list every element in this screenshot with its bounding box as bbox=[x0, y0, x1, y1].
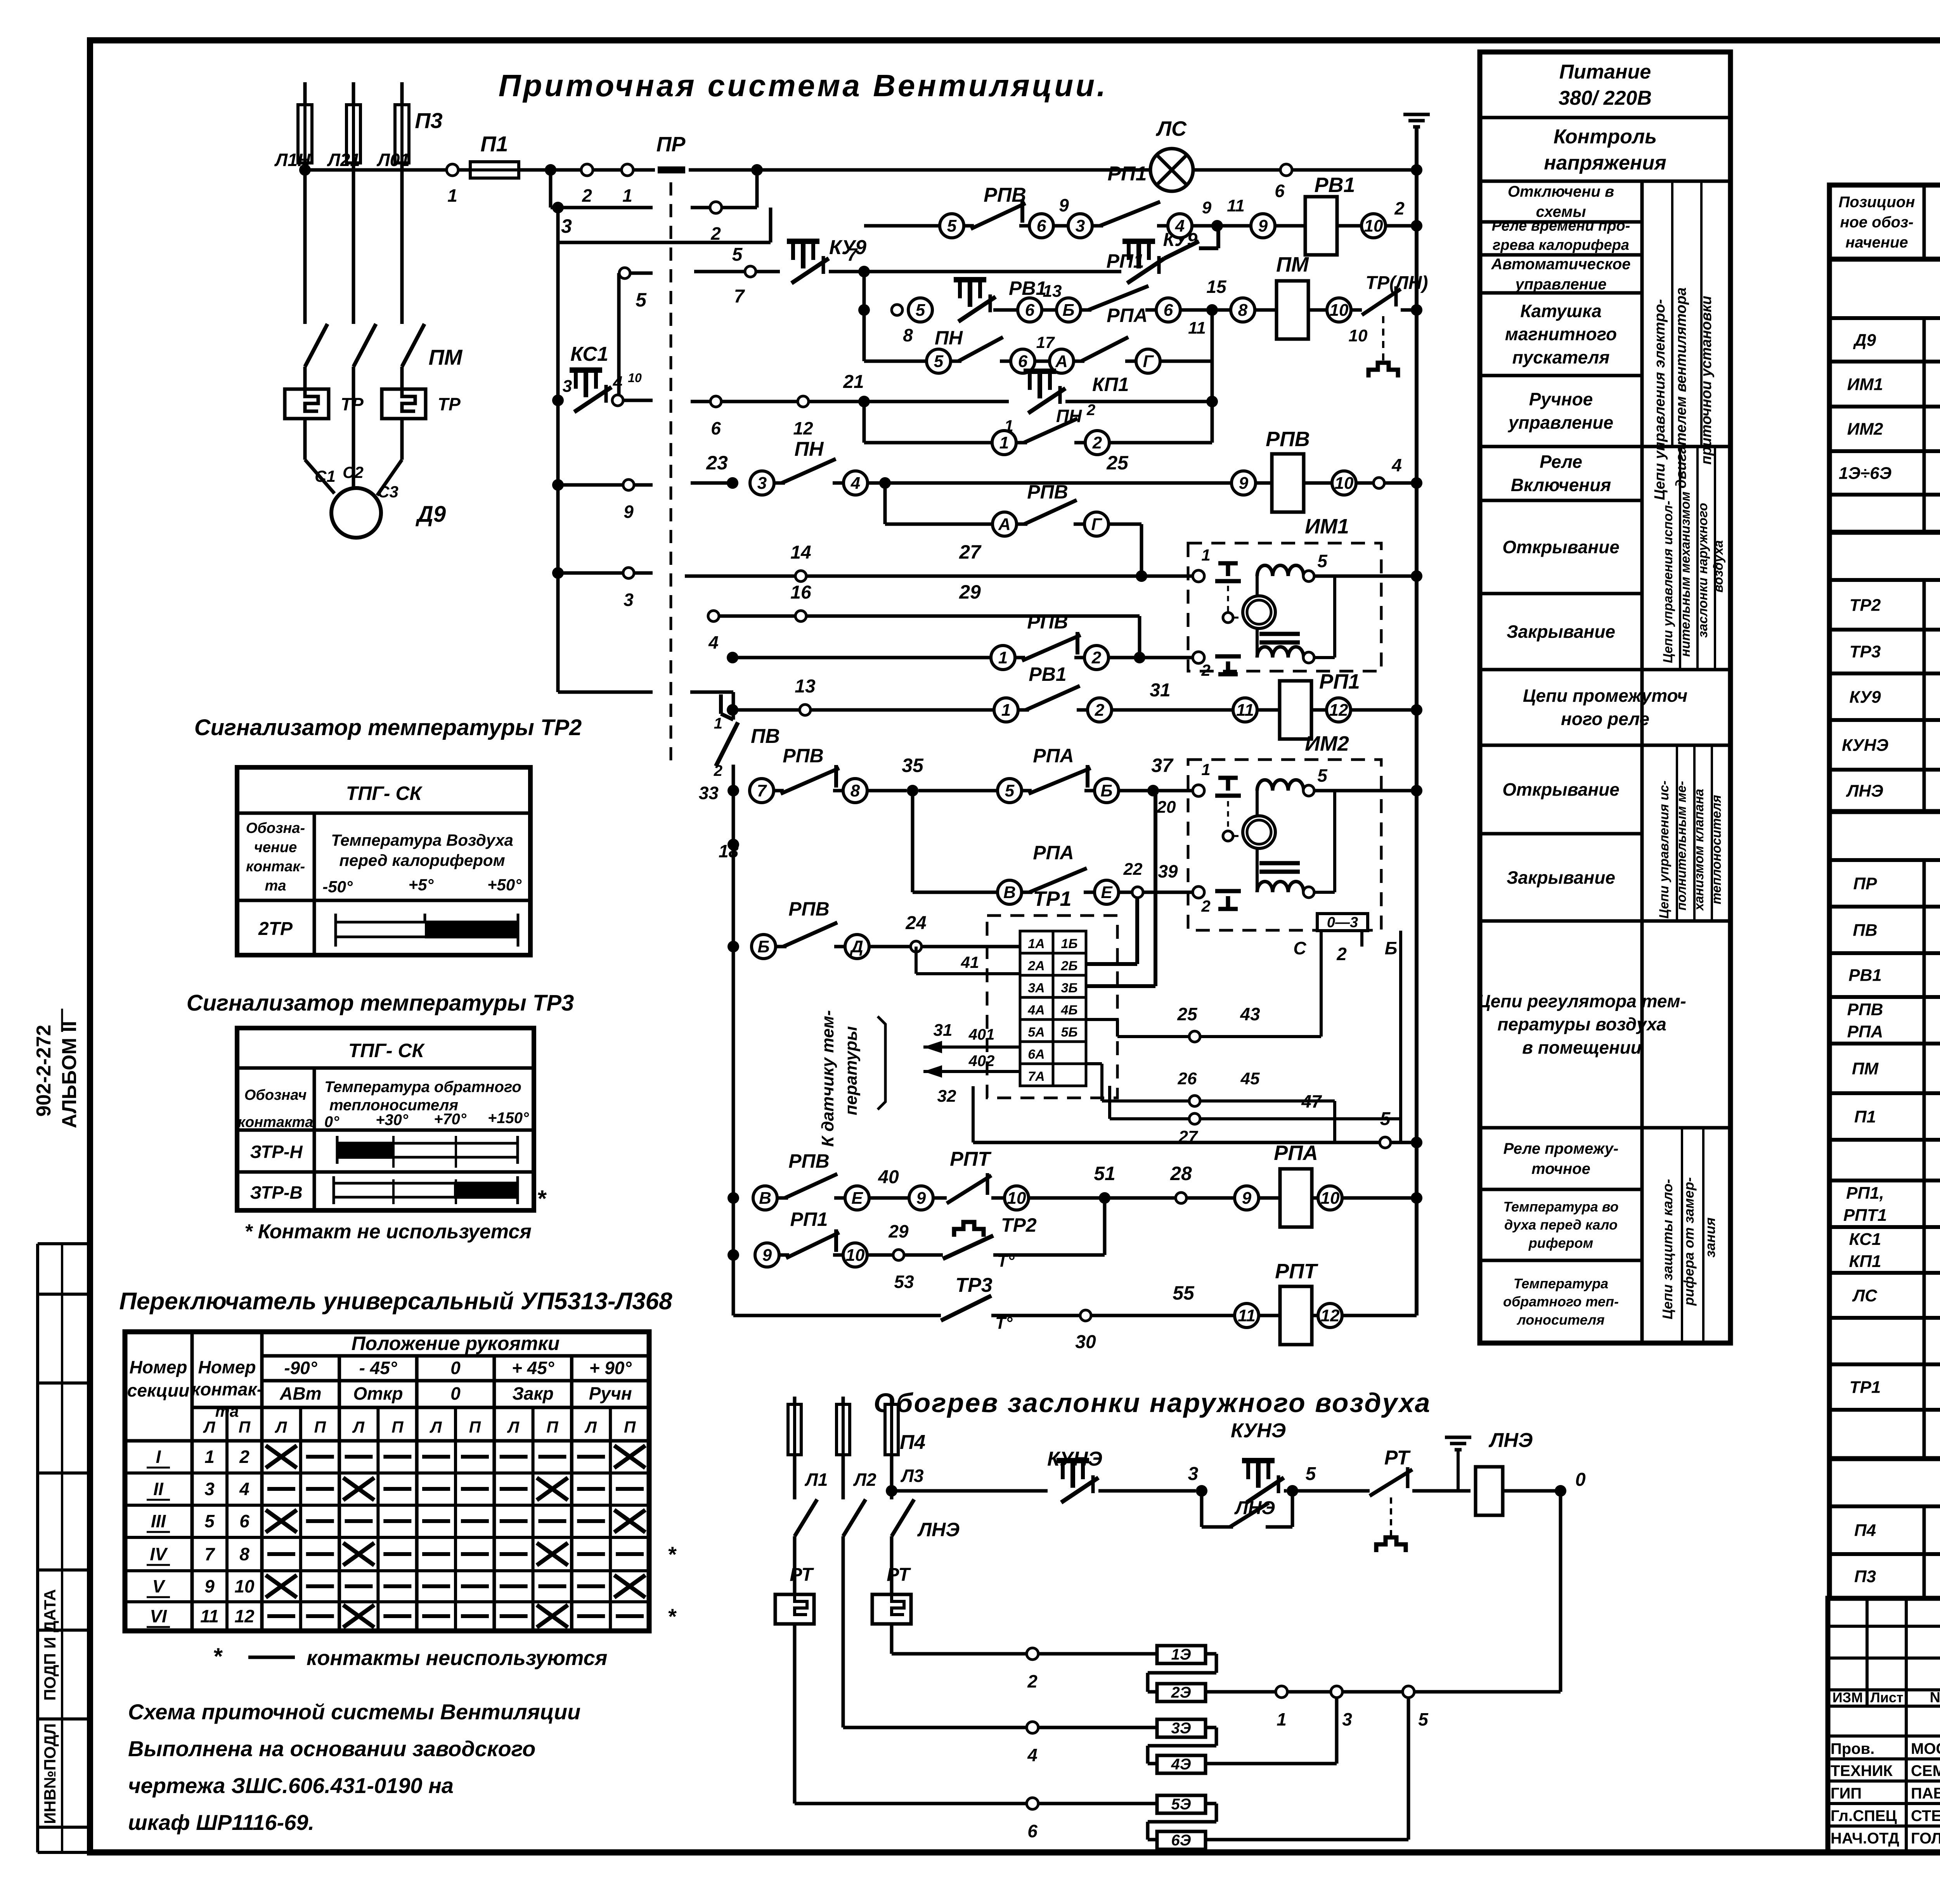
svg-text:Катушка: Катушка bbox=[1520, 301, 1602, 321]
svg-text:3Э: 3Э bbox=[1171, 1720, 1191, 1737]
svg-text:Гл.СПЕЦ: Гл.СПЕЦ bbox=[1831, 1807, 1897, 1824]
svg-text:Закр: Закр bbox=[512, 1383, 554, 1404]
svg-text:напряжения: напряжения bbox=[1544, 152, 1666, 174]
wire row 26/45 bbox=[1086, 1064, 1335, 1142]
part row КУ9 bbox=[1849, 679, 1940, 716]
svg-text:Отключени в: Отключени в bbox=[1508, 183, 1614, 200]
svg-text:Автоматическое: Автоматическое bbox=[1491, 256, 1630, 273]
table: Сигнализатор ТР2 bbox=[194, 715, 582, 955]
svg-text:7А: 7А bbox=[1028, 1069, 1044, 1084]
svg-text:ПВ: ПВ bbox=[1853, 921, 1877, 940]
svg-text:РТ: РТ bbox=[790, 1565, 814, 1585]
svg-text:+150°: +150° bbox=[488, 1110, 529, 1127]
svg-text:4: 4 bbox=[239, 1479, 249, 1499]
contact ПН make (row E) bbox=[864, 327, 1074, 373]
wire row D bbox=[892, 298, 932, 345]
svg-text:6Э: 6Э bbox=[1171, 1832, 1191, 1849]
svg-text:4: 4 bbox=[708, 632, 719, 653]
svg-text:РВ1: РВ1 bbox=[1009, 277, 1046, 299]
wire КС1 rail bbox=[556, 242, 560, 692]
svg-text:2: 2 bbox=[710, 223, 721, 244]
svg-text:1Э÷6Э: 1Э÷6Э bbox=[1839, 464, 1891, 483]
svg-text:двигателем вентилятора: двигателем вентилятора bbox=[1673, 287, 1689, 488]
svg-text:Закрывание: Закрывание bbox=[1507, 867, 1615, 888]
svg-text:6: 6 bbox=[1025, 301, 1035, 320]
heater row 4 (3Э 4Э) bbox=[843, 1698, 1337, 1773]
svg-text:*: * bbox=[667, 1604, 677, 1629]
svg-text:РВ1: РВ1 bbox=[1314, 173, 1355, 197]
svg-text:12: 12 bbox=[234, 1606, 255, 1626]
contact ТР(ЛН) thermal break bbox=[1349, 273, 1428, 377]
svg-text:1: 1 bbox=[714, 715, 722, 732]
svg-text:РПВ: РПВ bbox=[788, 1150, 829, 1172]
svg-text:контак-: контак- bbox=[191, 1379, 263, 1399]
svg-text:контакты неиспользуются: контакты неиспользуются bbox=[307, 1646, 607, 1670]
svg-text:КУ9: КУ9 bbox=[1849, 687, 1881, 706]
node 3 and button КУНЭ start bbox=[1188, 1419, 1370, 1502]
wire row 27 (to ИМ1) bbox=[685, 541, 1193, 582]
svg-text:8: 8 bbox=[850, 781, 860, 800]
svg-text:РПВ: РПВ bbox=[1847, 1000, 1883, 1019]
part row П1 bbox=[1854, 1106, 1940, 1127]
svg-text:13: 13 bbox=[1043, 282, 1062, 301]
heater row (2Э) + nodes 1 3 5 bbox=[1148, 1673, 1561, 1729]
svg-text:6А: 6А bbox=[1028, 1047, 1044, 1062]
svg-text:рифера от замер-: рифера от замер- bbox=[1681, 1177, 1697, 1306]
svg-text:20: 20 bbox=[1157, 798, 1176, 817]
svg-text:8: 8 bbox=[1238, 301, 1248, 320]
svg-text:5Э: 5Э bbox=[1171, 1796, 1191, 1813]
bottom note text block bbox=[128, 1700, 580, 1835]
svg-text:9: 9 bbox=[916, 1189, 926, 1208]
svg-text:1: 1 bbox=[447, 185, 457, 206]
svg-text:-50°: -50° bbox=[322, 878, 353, 896]
svg-text:Л1: Л1 bbox=[804, 1470, 828, 1490]
wire row G (ПН bypass) bbox=[864, 402, 1212, 455]
svg-text:Г: Г bbox=[1091, 515, 1102, 534]
selector table data rows bbox=[147, 1445, 677, 1629]
svg-text:Включения: Включения bbox=[1511, 475, 1611, 495]
svg-text:Ручное: Ручное bbox=[1529, 389, 1593, 409]
svg-text:КС1: КС1 bbox=[570, 343, 608, 365]
svg-text:КП1: КП1 bbox=[1092, 374, 1129, 395]
svg-text:11: 11 bbox=[1227, 196, 1245, 215]
svg-text:3: 3 bbox=[561, 215, 572, 237]
note контакты не используются bbox=[213, 1643, 607, 1670]
motor Д9 bbox=[315, 463, 446, 538]
svg-text:5: 5 bbox=[916, 301, 925, 320]
svg-text:Л2: Л2 bbox=[853, 1470, 876, 1490]
svg-text:6: 6 bbox=[711, 418, 721, 438]
svg-text:10: 10 bbox=[1349, 326, 1368, 345]
svg-text:Контроль: Контроль bbox=[1554, 125, 1657, 148]
part row ТР1 bbox=[1850, 1369, 1940, 1406]
svg-text:Закрывание: Закрывание bbox=[1507, 621, 1615, 642]
bypass row 2-1 and row 3 bbox=[551, 170, 771, 244]
svg-text:10: 10 bbox=[846, 1246, 865, 1265]
svg-text:1: 1 bbox=[998, 648, 1008, 667]
svg-text:17: 17 bbox=[1036, 333, 1055, 351]
contactor ПМ main contacts bbox=[305, 170, 463, 389]
svg-text:СЕМКОВА: СЕМКОВА bbox=[1911, 1762, 1940, 1779]
terminal 1 bbox=[447, 164, 471, 206]
svg-text:7: 7 bbox=[204, 1544, 215, 1564]
svg-text:Л: Л bbox=[352, 1418, 365, 1436]
svg-text:начение: начение bbox=[1845, 234, 1908, 251]
svg-text:КП1: КП1 bbox=[1849, 1252, 1881, 1271]
svg-text:0°: 0° bbox=[324, 1113, 339, 1130]
svg-text:духа перед кало: духа перед кало bbox=[1504, 1217, 1618, 1233]
contact ЛНЭ self-hold bypass bbox=[1202, 1491, 1292, 1527]
svg-text:-90°: -90° bbox=[284, 1358, 317, 1378]
node 7 bbox=[847, 244, 1121, 277]
svg-text:секции: секции bbox=[127, 1380, 189, 1400]
svg-text:+ 45°: + 45° bbox=[512, 1358, 554, 1378]
svg-text:Пров.: Пров. bbox=[1831, 1740, 1874, 1757]
svg-text:15: 15 bbox=[1206, 277, 1227, 297]
svg-text:21: 21 bbox=[843, 372, 864, 392]
part row РПВ РПА bbox=[1847, 1000, 1940, 1041]
svg-text:2: 2 bbox=[582, 185, 592, 206]
svg-text:4: 4 bbox=[1027, 1745, 1038, 1765]
svg-text:ЗТР-Н: ЗТР-Н bbox=[250, 1142, 303, 1162]
svg-text:Номер: Номер bbox=[129, 1357, 187, 1377]
svg-text:РПТ: РПТ bbox=[1275, 1260, 1318, 1283]
svg-text:3: 3 bbox=[757, 474, 767, 493]
svg-text:5: 5 bbox=[732, 244, 743, 265]
svg-text:4: 4 bbox=[1391, 455, 1402, 475]
svg-text:С3: С3 bbox=[378, 483, 398, 501]
svg-text:33: 33 bbox=[699, 783, 719, 803]
svg-text:С1: С1 bbox=[315, 467, 336, 485]
svg-text:ТР3: ТР3 bbox=[955, 1274, 992, 1296]
button КС1 bbox=[552, 343, 653, 412]
svg-text:ТПГ- СК: ТПГ- СК bbox=[348, 1040, 425, 1061]
svg-text:3: 3 bbox=[1342, 1709, 1352, 1729]
svg-text:АВт: АВт bbox=[279, 1383, 321, 1404]
svg-text:4А: 4А bbox=[1027, 1003, 1044, 1018]
svg-text:2: 2 bbox=[1091, 648, 1102, 667]
part row ИМ2 bbox=[1847, 410, 1940, 448]
svg-text:4Э: 4Э bbox=[1171, 1756, 1191, 1773]
svg-text:5: 5 bbox=[204, 1511, 215, 1531]
wire rail bottom corner to ПВ bus bbox=[558, 691, 733, 694]
contacts ЛНЭ main (phases) bbox=[795, 1491, 960, 1727]
svg-text:47: 47 bbox=[1301, 1091, 1322, 1111]
svg-text:2: 2 bbox=[714, 762, 722, 779]
svg-text:ПМ: ПМ bbox=[1852, 1059, 1879, 1078]
svg-text:Д9: Д9 bbox=[415, 502, 446, 527]
lamp ЛС bbox=[1150, 117, 1280, 191]
bar chart ЗТР-Н bbox=[337, 1136, 518, 1168]
svg-text:управление: управление bbox=[1515, 276, 1607, 293]
svg-text:5: 5 bbox=[1317, 551, 1328, 571]
svg-text:РПВ: РПВ bbox=[1266, 428, 1310, 451]
svg-text:4Б: 4Б bbox=[1061, 1003, 1078, 1018]
wire row F (6 12 21 КП1) bbox=[691, 372, 1009, 438]
svg-text:45: 45 bbox=[1240, 1069, 1260, 1088]
svg-text:С: С bbox=[1293, 938, 1306, 958]
svg-text:П1: П1 bbox=[480, 132, 508, 156]
svg-text:1: 1 bbox=[622, 185, 632, 206]
svg-text:РПВ: РПВ bbox=[1027, 481, 1068, 503]
svg-text:приточной установки: приточной установки bbox=[1698, 296, 1715, 464]
contact ТР2 thermal bbox=[943, 1198, 1105, 1270]
svg-text:11: 11 bbox=[1188, 318, 1206, 338]
svg-text:37: 37 bbox=[1151, 755, 1174, 776]
svg-text:5: 5 bbox=[947, 216, 957, 235]
svg-text:ИМ2: ИМ2 bbox=[1305, 732, 1349, 755]
dashed separation line ПР bbox=[670, 182, 672, 760]
svg-text:Е: Е bbox=[851, 1189, 863, 1208]
part row 1Э÷6Э bbox=[1839, 455, 1940, 492]
part row ЛНЭ bbox=[1846, 772, 1940, 810]
svg-text:6: 6 bbox=[1018, 352, 1028, 371]
wire row ТР3 (РПТ coil) bbox=[733, 1260, 1417, 1352]
svg-text:5: 5 bbox=[1317, 765, 1328, 786]
switch ПВ on left bus bbox=[714, 692, 780, 1315]
svg-text:Открывание: Открывание bbox=[1502, 537, 1620, 557]
svg-text:Л01: Л01 bbox=[376, 150, 410, 170]
svg-text:чертежа ЗШС.606.431-0190 на: чертежа ЗШС.606.431-0190 на bbox=[128, 1773, 454, 1798]
svg-text:31: 31 bbox=[1150, 680, 1170, 701]
svg-text:3: 3 bbox=[204, 1479, 215, 1499]
svg-text:Температура обратного: Температура обратного bbox=[324, 1078, 521, 1096]
rotated side labels middle table bbox=[1652, 287, 1726, 1319]
part row КС1 КП1 bbox=[1849, 1230, 1940, 1271]
svg-text:0: 0 bbox=[450, 1383, 461, 1404]
svg-text:25: 25 bbox=[1177, 1004, 1198, 1024]
wires to motor bbox=[305, 389, 402, 495]
svg-text:5А: 5А bbox=[1028, 1025, 1044, 1040]
contact ПН make (row H) bbox=[750, 438, 891, 495]
svg-text:6: 6 bbox=[1164, 301, 1173, 320]
svg-text:ЛС: ЛС bbox=[1852, 1286, 1878, 1305]
svg-text:А: А bbox=[1055, 352, 1068, 371]
wire row 29 bbox=[708, 581, 1140, 658]
svg-text:управление: управление bbox=[1508, 412, 1613, 433]
wire: top rail row A bbox=[299, 164, 447, 176]
wire row 27/47 bbox=[1110, 1086, 1401, 1146]
svg-text:31: 31 bbox=[934, 1021, 953, 1040]
stub terminal 9 bbox=[552, 479, 653, 522]
wire row РПА В-Е bbox=[913, 791, 1193, 904]
svg-text:П4: П4 bbox=[900, 1431, 925, 1454]
svg-text:шкаф ШР1116-69.: шкаф ШР1116-69. bbox=[128, 1810, 314, 1835]
svg-text:П3: П3 bbox=[415, 108, 442, 133]
svg-text:Позицион: Позицион bbox=[1839, 194, 1915, 211]
svg-text:12: 12 bbox=[1329, 701, 1348, 720]
svg-text:*: * bbox=[537, 1186, 547, 1212]
svg-text:РП1: РП1 bbox=[1106, 250, 1144, 272]
svg-text:9: 9 bbox=[762, 1246, 772, 1265]
svg-text:2Б: 2Б bbox=[1061, 959, 1078, 973]
svg-text:Открывание: Открывание bbox=[1502, 779, 1620, 800]
svg-text:II: II bbox=[153, 1479, 164, 1499]
button КП1 bbox=[1004, 371, 1212, 435]
contact РП1 make (row D) bbox=[1081, 250, 1255, 338]
svg-text:1: 1 bbox=[204, 1447, 215, 1467]
part row Д9 bbox=[1853, 322, 1940, 359]
svg-text:I: I bbox=[156, 1447, 161, 1467]
section title Обогрев заслонки bbox=[874, 1388, 1431, 1418]
svg-text:11: 11 bbox=[200, 1606, 219, 1626]
wire row A to right bus with lamp branch bbox=[689, 164, 1150, 176]
svg-text:5: 5 bbox=[1380, 1109, 1391, 1129]
part row ИМ1 bbox=[1847, 366, 1940, 403]
svg-text:22: 22 bbox=[1123, 860, 1143, 879]
wire 39: node 22 to terminal 2Б bbox=[1087, 898, 1137, 964]
svg-text:Приточная система Вентиляции: Приточная система Вентиляции. bbox=[499, 68, 1108, 103]
svg-text:Л: Л bbox=[507, 1418, 520, 1436]
svg-text:ТПГ- СК: ТПГ- СК bbox=[346, 782, 423, 804]
svg-text:3: 3 bbox=[1076, 216, 1085, 235]
svg-text:ИНВ№ПОДЛ: ИНВ№ПОДЛ bbox=[41, 1723, 59, 1824]
svg-text:16: 16 bbox=[790, 582, 811, 603]
svg-text:32: 32 bbox=[937, 1087, 956, 1106]
button РВ1 (row D) bbox=[954, 277, 1081, 322]
relay coil РПВ bbox=[1256, 428, 1422, 512]
svg-text:Б: Б bbox=[1062, 301, 1074, 320]
svg-text:N докум: N докум bbox=[1930, 1689, 1940, 1706]
svg-text:РВ1: РВ1 bbox=[1029, 663, 1066, 685]
svg-text:+ 90°: + 90° bbox=[589, 1358, 632, 1378]
svg-text:1: 1 bbox=[1201, 546, 1210, 564]
svg-text:РПВ: РПВ bbox=[984, 184, 1026, 206]
svg-text:1Э: 1Э bbox=[1171, 1646, 1191, 1663]
svg-text:П: П bbox=[239, 1418, 251, 1436]
svg-text:РТ: РТ bbox=[1384, 1447, 1411, 1469]
svg-text:точное: точное bbox=[1531, 1160, 1590, 1177]
wire 20: node 37 to terminal 3Б bbox=[1087, 791, 1176, 986]
svg-text:КУНЭ: КУНЭ bbox=[1231, 1419, 1286, 1442]
stub terminal 3 bbox=[552, 567, 653, 610]
svg-text:ПН: ПН bbox=[935, 327, 963, 349]
button КУ9 (start, to row B) bbox=[1122, 226, 1218, 283]
left margin rotated text ПОДП И ДАТА bbox=[41, 1589, 59, 1700]
svg-text:Температура Воздуха: Температура Воздуха bbox=[331, 831, 513, 849]
svg-text:Температура: Температура bbox=[1514, 1276, 1608, 1291]
svg-text:9: 9 bbox=[624, 502, 634, 522]
svg-text:РПВ: РПВ bbox=[788, 898, 829, 920]
svg-text:ИМ2: ИМ2 bbox=[1847, 419, 1883, 438]
svg-text:чение: чение bbox=[254, 839, 297, 856]
svg-text:2: 2 bbox=[1095, 701, 1105, 720]
svg-text:3: 3 bbox=[624, 590, 634, 610]
part row КУНЭ bbox=[1842, 727, 1940, 764]
svg-text:перед калорифером: перед калорифером bbox=[339, 851, 505, 869]
svg-text:РП1: РП1 bbox=[790, 1208, 828, 1230]
svg-text:2: 2 bbox=[1394, 198, 1405, 218]
svg-text:23: 23 bbox=[706, 452, 728, 474]
stamp names bbox=[1831, 1740, 1940, 1847]
svg-text:Цепи защиты кало-: Цепи защиты кало- bbox=[1659, 1179, 1675, 1319]
svg-text:10: 10 bbox=[1007, 1189, 1026, 1208]
svg-text:ЛНЭ: ЛНЭ bbox=[1488, 1429, 1533, 1452]
right bus with ground bbox=[1403, 114, 1430, 1315]
table: parts list bbox=[1829, 185, 1940, 1598]
svg-text:РПВ: РПВ bbox=[783, 745, 823, 767]
contact РПА make (row E) bbox=[1074, 305, 1212, 373]
svg-text:*: * bbox=[213, 1643, 223, 1669]
svg-text:пературы воздуха: пературы воздуха bbox=[1497, 1014, 1666, 1034]
svg-text:полнительным ме-: полнительным ме- bbox=[1674, 781, 1689, 910]
contact РПТ break with latch bbox=[933, 1141, 1422, 1237]
svg-text:*: * bbox=[667, 1542, 677, 1566]
svg-text:ЛС: ЛС bbox=[1155, 117, 1187, 140]
svg-text:РВ1: РВ1 bbox=[1848, 966, 1882, 985]
svg-text:РПА: РПА bbox=[1107, 305, 1147, 326]
svg-text:ТР3: ТР3 bbox=[1850, 642, 1881, 661]
svg-text:402: 402 bbox=[968, 1052, 995, 1070]
svg-text:Цепи управления ис-: Цепи управления ис- bbox=[1657, 781, 1672, 919]
svg-text:П: П bbox=[391, 1418, 404, 1436]
svg-text:10: 10 bbox=[628, 371, 642, 385]
left margin rotated text ИНВ№ПОДЛ bbox=[41, 1723, 59, 1824]
svg-text:1Б: 1Б bbox=[1061, 936, 1078, 951]
bar chart ЗТР-В bbox=[334, 1176, 547, 1212]
svg-text:ПМ: ПМ bbox=[1276, 253, 1309, 276]
svg-text:5: 5 bbox=[1418, 1709, 1429, 1729]
svg-text:39: 39 bbox=[1158, 861, 1178, 881]
svg-text:Г: Г bbox=[1143, 352, 1154, 371]
box 0-3 (setpoint) bbox=[1293, 914, 1401, 1119]
svg-text:ПН: ПН bbox=[795, 438, 824, 460]
svg-text:2: 2 bbox=[1201, 897, 1210, 915]
svg-text:VI: VI bbox=[150, 1606, 167, 1626]
svg-text:П1: П1 bbox=[1854, 1107, 1876, 1126]
svg-text:380/ 220В: 380/ 220В bbox=[1559, 87, 1652, 109]
svg-text:НАЧ.ОТД: НАЧ.ОТД bbox=[1831, 1830, 1899, 1847]
svg-text:2ТР: 2ТР bbox=[258, 919, 293, 939]
svg-text:1: 1 bbox=[1277, 1709, 1287, 1729]
svg-text:9: 9 bbox=[1242, 1189, 1252, 1208]
svg-text:V: V bbox=[152, 1576, 166, 1596]
node 0 bbox=[1555, 1470, 1586, 1692]
svg-text:9: 9 bbox=[1202, 198, 1212, 217]
svg-text:Сигнализатор температуры ТР3: Сигнализатор температуры ТР3 bbox=[187, 990, 574, 1016]
svg-text:53: 53 bbox=[894, 1272, 914, 1292]
svg-text:ИМ1: ИМ1 bbox=[1847, 375, 1883, 394]
svg-text:магнитного: магнитного bbox=[1505, 324, 1617, 344]
svg-text:27: 27 bbox=[959, 541, 982, 563]
svg-text:0: 0 bbox=[1575, 1470, 1586, 1490]
thermal РТ heater (Л3) bbox=[872, 1565, 911, 1654]
svg-text:заслонки наружного: заслонки наружного bbox=[1696, 503, 1710, 638]
svg-text:12: 12 bbox=[793, 418, 813, 438]
svg-text:Ручн: Ручн bbox=[589, 1383, 632, 1404]
svg-text:КС1: КС1 bbox=[1849, 1230, 1881, 1249]
svg-text:РП1: РП1 bbox=[1319, 670, 1360, 693]
svg-text:ГИП: ГИП bbox=[1831, 1785, 1862, 1802]
part row ЛС bbox=[1852, 1278, 1940, 1315]
svg-text:2: 2 bbox=[1201, 661, 1210, 679]
svg-text:1: 1 bbox=[1201, 760, 1210, 779]
svg-text:9: 9 bbox=[1239, 474, 1249, 493]
svg-text:4: 4 bbox=[850, 474, 860, 493]
part row ТР2 bbox=[1850, 587, 1940, 624]
labels parts table header bbox=[1839, 194, 1940, 251]
svg-text:902-2-272: 902-2-272 bbox=[33, 1025, 55, 1116]
svg-text:1: 1 bbox=[1001, 701, 1011, 720]
svg-text:5: 5 bbox=[1005, 781, 1015, 800]
stamp изм лист columns bbox=[1833, 1689, 1940, 1706]
svg-text:51: 51 bbox=[1094, 1163, 1115, 1184]
svg-text:ное обоз-: ное обоз- bbox=[1840, 214, 1913, 231]
svg-text:8: 8 bbox=[239, 1544, 249, 1564]
thermal РТ heater (Л1) bbox=[775, 1565, 814, 1804]
stub terminal 5 (left of ПР line) bbox=[619, 268, 653, 400]
